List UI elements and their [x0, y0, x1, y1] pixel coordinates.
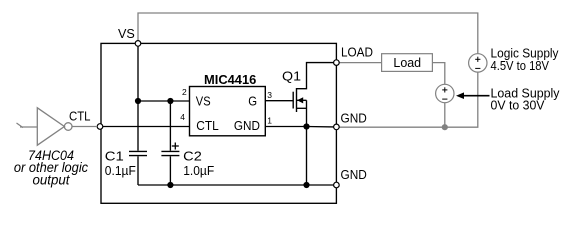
svg-text:2: 2	[182, 87, 187, 97]
svg-text:output: output	[33, 173, 71, 188]
drain stub	[297, 63, 334, 89]
svg-text:GND: GND	[341, 110, 367, 125]
wire : gray wire Load Supply bottom to ground line	[444, 103, 446, 127]
svg-text:4: 4	[180, 112, 185, 122]
svg-text:1: 1	[267, 115, 272, 125]
junction dot source bottom	[303, 182, 309, 188]
voltage source Load Supply	[436, 84, 454, 102]
arrow pointing at Load Supply	[461, 95, 490, 97]
junction dot at C1 top	[135, 98, 141, 104]
inverter output bubble	[64, 123, 72, 131]
wire : input slash	[17, 123, 24, 128]
svg-text:C1: C1	[105, 148, 124, 163]
svg-text:GND: GND	[341, 167, 367, 182]
node GND lower : terminal circle	[334, 182, 340, 188]
node VS : terminal circle	[135, 41, 141, 47]
Load box	[382, 54, 433, 72]
wire : pin 3 G to gate	[265, 100, 293, 102]
board outline rectangle	[101, 43, 336, 203]
svg-text:VS: VS	[196, 93, 211, 108]
svg-text:Q1: Q1	[282, 68, 301, 83]
junction : gray dot Load Supply to ground line	[442, 124, 448, 130]
svg-text:4.5V to 18V: 4.5V to 18V	[491, 58, 550, 73]
wire : body/source vertical down to GND junction	[306, 100, 308, 185]
svg-text:CTL: CTL	[69, 108, 91, 123]
node GND upper : terminal circle	[334, 124, 340, 130]
body stub with arrow	[297, 99, 307, 101]
svg-text:MIC4416: MIC4416	[204, 72, 256, 87]
gate bar	[292, 92, 294, 109]
inverter U2 74HC04	[37, 108, 64, 145]
wire : gray ground return from GND terminal right, up to Logic Supply bottom	[339, 72, 477, 127]
wire : CTL terminal to pin 4	[103, 126, 190, 128]
svg-text:3: 3	[267, 90, 272, 100]
capacitor C1	[137, 101, 139, 151]
junction dot C2 bottom	[167, 182, 173, 188]
wire : inverter output to CTL terminal	[72, 126, 98, 128]
capacitor C2	[169, 101, 171, 151]
wire : pin 1 GND to source junction	[265, 126, 306, 128]
svg-text:C2: C2	[183, 148, 202, 163]
channel bar	[296, 88, 298, 112]
wire : junction to GND terminal	[307, 126, 334, 128]
svg-text:LOAD: LOAD	[341, 45, 373, 60]
source stub	[297, 107, 307, 109]
svg-text:0V to 30V: 0V to 30V	[491, 98, 545, 113]
svg-text:CTL: CTL	[196, 118, 219, 133]
svg-text:1.0µF: 1.0µF	[183, 163, 214, 178]
wire : gray VS supply wire from VS terminal up and right to Logic Supply	[138, 13, 478, 54]
junction dot at C2 top	[167, 98, 173, 104]
label + polarity of C2	[172, 145, 179, 147]
svg-text:Load: Load	[393, 55, 421, 70]
wire : inverter input	[20, 126, 37, 128]
node CTL : terminal circle	[97, 124, 103, 130]
svg-text:GND: GND	[234, 118, 260, 133]
svg-text:G: G	[248, 93, 257, 108]
op-amp U1 MIC4416 box	[190, 87, 266, 136]
junction dot at source / GND	[303, 123, 309, 129]
wire : gray wire LOAD terminal to Load box	[339, 62, 381, 64]
wire : VS terminal down to VS rail junction	[137, 46, 139, 101]
wire : VS rail to pin 2	[138, 100, 190, 102]
svg-text:VS: VS	[118, 26, 135, 41]
svg-text:0.1µF: 0.1µF	[105, 163, 136, 178]
node LOAD : terminal circle	[334, 60, 340, 66]
wire : gray wire Load box to Load Supply top	[432, 63, 444, 85]
wire : ground bus inside board	[138, 184, 334, 186]
voltage source Logic Supply	[469, 54, 487, 72]
